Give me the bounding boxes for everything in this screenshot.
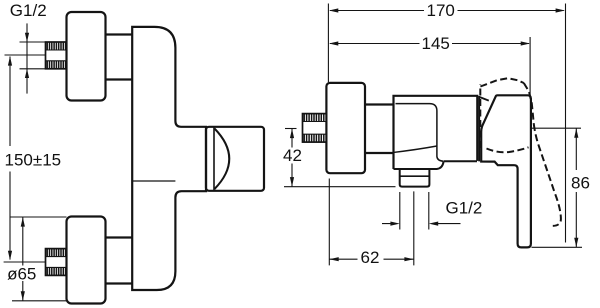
svg-text:G1/2: G1/2 [10,1,47,20]
svg-text:42: 42 [283,146,302,165]
side view: lever handle dashed right edge [524,83,534,124]
dimension 170: dimension line [330,10,564,12]
dimension ø65: dimension line with arrows [22,218,24,301]
dimension ø65: extension lines [10,217,67,301]
svg-text:150±15: 150±15 [5,151,62,170]
dimension 86: bottom extension line [532,246,583,248]
side view: cartridge cap seam [396,104,444,162]
front view: body seam line [132,180,175,182]
side view: nipple seam [400,175,430,177]
front view: top escutcheon [67,12,106,101]
side view: cartridge block top and left [394,96,478,169]
front view: top neck [106,35,133,80]
dimension 42: bottom extension line [284,186,396,188]
front view: mixer body outline [132,27,206,290]
front view: bottom inlet pipe G1/2 [46,249,67,276]
side view: lever handle dashed top arc [480,78,523,86]
dimension 62: dimension line with arrows [329,258,414,260]
front view: top inlet pipe G1/2 [46,42,67,69]
svg-text:62: 62 [361,248,380,267]
dimension 42: dimension line with arrows [291,129,293,187]
dimension 145: right extension line [529,37,531,95]
side view: escutcheon [326,83,365,173]
top pipe centerline [5,54,46,56]
side view: shower outlet nipple [400,169,430,187]
side view: handle skirt top line [479,97,489,101]
dimension G1/2 top-left: dimension line with arrows [26,23,28,93]
side view: lever handle dashed blade [534,124,561,226]
side view: lever handle dashed (raised position) left edge [479,85,481,149]
dimension 150±15: dimension line with arrows [9,57,11,260]
dimension 170: extension lines [328,4,565,243]
side view: front underside [444,160,477,162]
dimension G1/2 outlet: extension lines [400,192,429,230]
dimension G1/2 top-left: extension lines [20,42,47,69]
front view: handle dome arc [215,129,230,190]
front view: handle cap [206,127,264,191]
side view: lever handle solid (down position) [481,95,531,247]
side view: neck [365,105,394,154]
svg-text:170: 170 [427,1,455,20]
front view: bottom escutcheon [67,217,106,304]
side view: handle skirt front edge [478,96,480,161]
front view: bottom neck [106,238,133,284]
side view: lever handle dashed bottom arc [487,147,529,152]
dimension 86: dimension line with arrows [575,129,577,248]
svg-text:86: 86 [571,174,590,193]
side view: body surface arc [394,146,437,152]
front view: handle cap inner edge [213,128,215,191]
svg-text:ø65: ø65 [7,265,36,284]
svg-text:G1/2: G1/2 [446,199,483,218]
side view: inlet pipe G1/2 [303,114,327,143]
dimension G1/2 outlet: arrows [382,223,461,225]
svg-text:145: 145 [422,34,450,53]
dimension 42: reference tick [285,128,297,130]
side view: block bottom with fillet [394,161,444,169]
bottom pipe centerline [4,261,46,263]
dimension 86: top extension line [531,127,581,129]
dimension 145: dimension line [330,43,529,45]
dimension 62: extension lines [329,179,414,266]
